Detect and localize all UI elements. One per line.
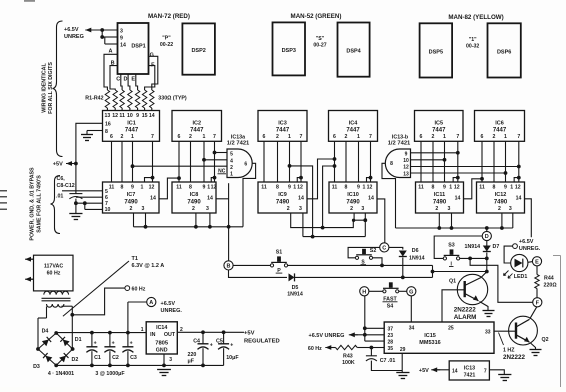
wire H riser to IC15 pins 37 23 28 [363, 296, 384, 341]
svg-text:11: 11 [332, 185, 338, 191]
capacitor C5 10uF [216, 332, 239, 365]
svg-text:3: 3 [509, 206, 512, 212]
svg-text:+6.5V UNREG: +6.5V UNREG [309, 333, 345, 339]
svg-text:IC14: IC14 [156, 325, 167, 331]
label "1" 00-32 [466, 37, 479, 50]
decoder IC4 7447 [329, 111, 378, 142]
transistor Q2 2N2222 1Hz [509, 316, 538, 345]
segment labels G F on DSP1 right [150, 53, 155, 69]
svg-text:5: 5 [230, 151, 233, 157]
capacitor C4 220uF [188, 332, 213, 365]
svg-text:3: 3 [206, 206, 209, 212]
op-amp style AND gate IC13a 1/2 7421 [227, 135, 252, 178]
svg-text:117VAC: 117VAC [44, 263, 64, 269]
svg-text:9: 9 [288, 185, 291, 191]
node D [482, 231, 491, 240]
svg-text:7: 7 [369, 134, 372, 140]
counter IC11 7490 [416, 182, 464, 213]
node H [360, 287, 369, 296]
display DSP5 [420, 23, 453, 77]
labels Q1 2N2222 ALARM [449, 278, 476, 321]
switch S1 [270, 256, 287, 267]
svg-text:14: 14 [368, 196, 374, 202]
svg-text:14: 14 [298, 196, 304, 202]
svg-text:16: 16 [105, 121, 111, 127]
wire bus A riser to IC4 pin6 line [321, 164, 337, 229]
label +6.5V UNREG (pin23) with arrow [309, 332, 365, 339]
svg-text:G: G [150, 53, 154, 59]
IC1 top pin labels 13 12 11 10 9 15 14 [105, 113, 155, 119]
svg-text:6: 6 [481, 134, 484, 140]
svg-text:11: 11 [119, 113, 125, 119]
svg-text:S2: S2 [370, 248, 377, 254]
svg-text:+6.5V: +6.5V [64, 27, 79, 33]
wire IC11 pin1-pin12 strap [453, 178, 458, 182]
svg-text:D5: D5 [292, 285, 299, 291]
svg-text:14: 14 [207, 196, 213, 202]
wire segment C to R3 [121, 74, 122, 90]
svg-text:7: 7 [151, 134, 154, 140]
wire IC6 pin1 to gate pin13 [411, 171, 508, 175]
svg-text:C6,: C6, [57, 176, 66, 182]
svg-text:9: 9 [131, 185, 134, 191]
svg-text:14: 14 [150, 196, 156, 202]
svg-text:C7 .01: C7 .01 [380, 358, 396, 364]
svg-text:1: 1 [510, 185, 513, 191]
wire bus A (IC9 pin2 to IC10 resets) [291, 213, 356, 237]
svg-text:12: 12 [112, 113, 118, 119]
label +5V with arrow (IC13) [419, 367, 449, 373]
svg-text:9: 9 [120, 35, 123, 41]
svg-text:8: 8 [276, 185, 279, 191]
wire LED1 to node E [528, 261, 533, 264]
wire segment D to R4 [128, 74, 130, 90]
label NC [218, 169, 227, 175]
svg-text:8: 8 [493, 185, 496, 191]
wire B down to D5 line [229, 270, 288, 278]
wire IC10 pin1-pin12 strap [367, 178, 371, 182]
svg-text:12: 12 [367, 185, 373, 191]
wire IC7 pin1-pin12 strap [145, 178, 153, 182]
svg-text:GND: GND [156, 347, 168, 353]
svg-text:1: 1 [504, 134, 507, 140]
svg-text:220: 220 [188, 352, 197, 358]
ground at IC1 pin 8 [81, 135, 93, 141]
wire segment G to R7 [149, 56, 158, 90]
svg-text:4 · 1N4001: 4 · 1N4001 [48, 371, 74, 377]
svg-text:14: 14 [149, 113, 155, 119]
svg-text:IC12: IC12 [495, 192, 507, 198]
wire BCD bus IC1 to IC7 [112, 141, 153, 182]
wire C to S2 [348, 247, 380, 257]
svg-text:12: 12 [515, 185, 521, 191]
svg-text:UNREG: UNREG [64, 34, 84, 40]
svg-text:IC3: IC3 [278, 121, 287, 127]
node C [380, 243, 389, 252]
svg-text:13: 13 [403, 171, 409, 177]
svg-text:7490: 7490 [124, 200, 138, 206]
pointer line 1 HZ label [499, 333, 504, 346]
wire Q1 base to IC15 pin 25 [442, 290, 465, 322]
svg-text:IC10: IC10 [347, 192, 359, 198]
svg-text:7: 7 [456, 134, 459, 140]
wire IC9 pin14 cascade to IC4 pin6 line [307, 157, 336, 199]
resistor network R1-R42 (7 shown) [105, 90, 154, 111]
wire BCD bus IC4 to IC10 [335, 141, 371, 182]
labels D1 D2 D3 D4 [33, 328, 82, 370]
wire S1 to set line [287, 264, 487, 278]
svg-text:B: B [227, 263, 231, 269]
svg-text:D3: D3 [33, 364, 40, 370]
junction dots bypass [74, 201, 87, 205]
label 60 Hz with arrow [308, 345, 336, 352]
svg-text:29: 29 [400, 347, 406, 353]
wire IC2 pin7 to gate pin5 [213, 151, 227, 155]
wire +6.5V unreg to DSP1 pins 3 9 14 [85, 28, 117, 44]
svg-text:+5V: +5V [53, 162, 63, 168]
svg-text:1N914: 1N914 [287, 292, 303, 298]
svg-text:8: 8 [121, 185, 124, 191]
wire BCD bus IC6 to IC12 [482, 141, 519, 182]
svg-text:LED1: LED1 [514, 274, 528, 280]
counter IC10 7490 [329, 182, 377, 213]
svg-text:DSP4: DSP4 [346, 49, 361, 55]
svg-text:7447: 7447 [276, 128, 290, 134]
display DSP1 [118, 23, 149, 74]
svg-text:+: + [94, 340, 97, 346]
transformer T1 primary box 117VAC 60Hz [34, 255, 74, 291]
svg-text:6: 6 [263, 134, 266, 140]
wire IC7 pin14 cascade to IC8 pin11 line [159, 176, 181, 199]
page edge artifact top-left [24, 0, 35, 2]
svg-text:+6.5V: +6.5V [161, 301, 176, 307]
svg-text:28: 28 [388, 339, 394, 345]
wire H to S4 [369, 290, 385, 292]
label S [361, 260, 367, 266]
svg-text:9: 9 [405, 151, 408, 157]
svg-text:1/2 7421: 1/2 7421 [227, 141, 250, 147]
svg-text:ALARM: ALARM [454, 314, 477, 321]
gate package IC13 7421 [449, 361, 489, 380]
svg-text:S1: S1 [276, 249, 283, 255]
svg-text:7: 7 [484, 368, 487, 374]
svg-text:10μF: 10μF [226, 355, 239, 361]
wire IC5 pin7 to gate pin9 [411, 151, 460, 155]
svg-text:1: 1 [443, 134, 446, 140]
svg-text:3 @ 1000μF: 3 @ 1000μF [95, 371, 125, 377]
label P [276, 268, 283, 274]
wire +5V regulated output [177, 330, 244, 334]
svg-text:3: 3 [448, 206, 451, 212]
svg-text:330Ω (TYP): 330Ω (TYP) [158, 96, 187, 102]
svg-text:11: 11 [176, 185, 182, 191]
decoder IC6 7447 [475, 111, 525, 142]
counter IC8 7490 [172, 182, 216, 213]
wire gate IC13b output 8 [382, 163, 396, 228]
transistor Q1 2N2222 [457, 274, 487, 304]
decoder IC1 7447 [103, 111, 160, 142]
labels R44 220ohm [544, 276, 558, 289]
svg-text:2N2222: 2N2222 [454, 307, 477, 314]
svg-text:IC6: IC6 [495, 121, 504, 127]
svg-text:D2: D2 [72, 357, 79, 363]
note WIRING IDENTICAL FOR ALL SIX DIGITS with brace [42, 21, 63, 157]
svg-text:9: 9 [203, 185, 206, 191]
svg-text:12: 12 [149, 185, 155, 191]
svg-text:7447: 7447 [125, 128, 139, 134]
svg-text:+5V: +5V [244, 330, 255, 336]
svg-text:11: 11 [261, 185, 267, 191]
wire BCD bus IC3 to IC9 [264, 141, 301, 182]
DSP1 pin labels 3 9 14 [120, 28, 126, 48]
switch S2 [355, 249, 372, 260]
capacitors C1 C2 C3 1000uF [86, 333, 137, 366]
svg-text:"P": "P" [162, 36, 171, 42]
svg-text:MM5316: MM5316 [419, 340, 440, 346]
svg-text:DSP1: DSP1 [131, 44, 145, 50]
transformer windings [42, 291, 71, 307]
svg-text:9: 9 [443, 185, 446, 191]
svg-text:C3: C3 [130, 355, 137, 361]
svg-text:T1: T1 [132, 256, 138, 262]
svg-text:C4: C4 [193, 338, 200, 344]
svg-text:MAN-52 (GREEN): MAN-52 (GREEN) [291, 13, 342, 20]
wire E to R44 [536, 266, 538, 275]
svg-text:1/2 7421: 1/2 7421 [388, 141, 411, 147]
wire IC2 pin1 to gate pin4 [202, 158, 227, 162]
svg-text:C8-C12: C8-C12 [57, 183, 75, 189]
ground below C6 [69, 214, 82, 220]
label "S" 00-27 [313, 36, 326, 49]
svg-text:12: 12 [297, 185, 303, 191]
svg-text:D4: D4 [42, 328, 49, 334]
terminal 60 Hz [125, 286, 130, 291]
wire IC12 pin14 to +6.5V unreg [525, 199, 532, 237]
bridge rectifier D1-D4 [36, 331, 74, 367]
wire D to S3 [434, 236, 482, 258]
wire IC1 pin1 to gate pin2 bus [131, 164, 227, 168]
svg-text:1: 1 [203, 134, 206, 140]
svg-text:DSP3: DSP3 [282, 48, 296, 54]
label +6.5V UNREG (right) [519, 239, 541, 252]
svg-text:D7: D7 [493, 244, 500, 250]
svg-text:C1: C1 [94, 355, 101, 361]
svg-text:Q1: Q1 [449, 278, 456, 284]
svg-text:MAN-72 (RED): MAN-72 (RED) [148, 13, 190, 20]
svg-text:7490: 7490 [494, 200, 508, 206]
svg-text:IC7: IC7 [127, 192, 136, 198]
svg-text:2: 2 [345, 134, 348, 140]
counter IC12 7490 [477, 182, 525, 213]
svg-text:7421: 7421 [464, 372, 476, 378]
wire IC6 pin7 to gate pin12 [411, 165, 521, 169]
svg-text:3: 3 [299, 206, 302, 212]
svg-text:+: + [230, 343, 233, 349]
svg-text:3: 3 [142, 206, 145, 212]
labels D5 1N914 [287, 285, 303, 298]
svg-text:13: 13 [105, 113, 111, 119]
decoder IC3 7447 [258, 111, 307, 142]
wire IC9 pin9 branch down to bus B [288, 164, 315, 239]
svg-text:R1-R42: R1-R42 [85, 96, 103, 102]
node G [407, 287, 416, 296]
svg-text:IC15: IC15 [424, 333, 436, 339]
display DSP3 [273, 22, 306, 75]
svg-text:+5V: +5V [419, 368, 429, 374]
display DSP6 [488, 23, 521, 77]
svg-text:1 HZ: 1 HZ [503, 348, 515, 354]
svg-text:7: 7 [105, 201, 108, 207]
switch S3 [443, 249, 459, 260]
wire segment E to R5 [136, 74, 138, 90]
wire IC8 pin1-pin12 strap [211, 178, 214, 182]
svg-text:12: 12 [454, 185, 460, 191]
wire reset bus right (IC11 IC12 pins 2 3) [396, 213, 513, 230]
decoder IC2 7447 [172, 111, 222, 142]
svg-text:60 Hz: 60 Hz [47, 270, 61, 276]
label "P" 00-22 [160, 36, 173, 49]
svg-text:2: 2 [432, 134, 435, 140]
svg-text:OUT: OUT [164, 332, 176, 338]
wire bus B (IC10 pins 2 3) [303, 213, 367, 237]
svg-text:6: 6 [110, 134, 113, 140]
wire gate IC13a output 6 [243, 163, 256, 227]
svg-text:E: E [535, 259, 539, 265]
svg-text:IC2: IC2 [192, 121, 201, 127]
labels Q2 1 HZ 2N2222 [503, 337, 549, 361]
label +6.5V UNREG (top left) [64, 27, 84, 40]
svg-text:D: D [485, 234, 489, 240]
svg-text:7447: 7447 [493, 128, 507, 134]
svg-text:00-22: 00-22 [160, 42, 173, 48]
wire IC5 pin1 to gate pin10 [411, 158, 447, 162]
wire BCD bus IC2 to IC8 [179, 141, 215, 182]
svg-text:1N914: 1N914 [465, 244, 481, 250]
svg-text:8: 8 [432, 185, 435, 191]
svg-text:1: 1 [230, 172, 233, 178]
node B [224, 261, 233, 270]
label I (S3) [449, 261, 454, 267]
svg-text:6: 6 [333, 134, 336, 140]
svg-text:6: 6 [244, 161, 247, 167]
svg-text:FOR ALL SIX DIGITS: FOR ALL SIX DIGITS [48, 62, 54, 114]
svg-text:C5: C5 [216, 338, 223, 344]
svg-text:60 Hz: 60 Hz [132, 286, 146, 292]
svg-text:2: 2 [435, 206, 438, 212]
svg-text:2: 2 [192, 206, 195, 212]
svg-text:8: 8 [345, 185, 348, 191]
svg-text:9: 9 [504, 185, 507, 191]
svg-text:1: 1 [141, 185, 144, 191]
svg-text:7: 7 [213, 134, 216, 140]
wire R44 to node F [536, 289, 538, 298]
svg-text:7490: 7490 [276, 200, 290, 206]
note POWER GND BYPASS SAME FOR ALL 7490'S with brace [30, 167, 61, 241]
svg-text:+: + [130, 340, 133, 346]
wire IC14 GND to ground [163, 354, 165, 365]
svg-text:6.3V @ 1.2 A: 6.3V @ 1.2 A [132, 263, 165, 269]
svg-text:"1": "1" [469, 37, 477, 43]
wire IC9 pin1-pin12 strap [297, 178, 301, 182]
regulator IC14 7805 [146, 322, 177, 354]
labels FAST S4 [383, 297, 398, 310]
svg-text:3: 3 [169, 357, 172, 363]
svg-text:1: 1 [288, 134, 291, 140]
svg-text:2: 2 [121, 134, 124, 140]
wire Q2 emitter to ground [531, 343, 536, 350]
wire IC13 pin 7 to ground [489, 370, 504, 375]
wire S3 to alarm line [458, 257, 487, 261]
IC1 left pin labels 16 8 [105, 121, 111, 135]
page edge line right [553, 256, 561, 388]
wire IC8 pin14 to node B riser [216, 198, 229, 200]
wire transformer secondary to bridge [38, 306, 74, 349]
wire node B riser [228, 183, 230, 261]
svg-text:1: 1 [141, 327, 144, 333]
svg-text:14: 14 [516, 196, 522, 202]
wire reset bus left (IC7 IC8 pins 2 3 to gate-a output) [134, 213, 244, 229]
wire C6 to IC7 pins 6 7 10 [62, 191, 103, 210]
svg-text:2N2222: 2N2222 [503, 354, 526, 361]
decoder IC5 7447 [415, 111, 464, 142]
svg-text:S4: S4 [387, 304, 394, 310]
svg-text:10: 10 [105, 207, 111, 213]
wire segment B to R2 [110, 66, 118, 90]
svg-text:A: A [149, 300, 153, 306]
wire G riser to IC15 pin 34 [410, 296, 412, 322]
svg-text:8: 8 [189, 185, 192, 191]
svg-text:MAN-82 (YELLOW): MAN-82 (YELLOW) [448, 14, 503, 21]
terminal +6.5V unreg [513, 244, 518, 249]
svg-text:IC11: IC11 [434, 192, 445, 198]
svg-text:10: 10 [403, 158, 409, 164]
junction dots DSP1 supply [100, 28, 104, 39]
svg-text:2: 2 [493, 134, 496, 140]
svg-text:8: 8 [105, 129, 108, 135]
svg-text:11: 11 [109, 185, 115, 191]
svg-text:IC4: IC4 [349, 121, 359, 127]
svg-text:14: 14 [452, 368, 458, 374]
wire alarm loop to node F [470, 258, 533, 302]
svg-text:IC1: IC1 [127, 121, 136, 127]
svg-text:60 Hz: 60 Hz [308, 346, 322, 352]
svg-text:2: 2 [130, 206, 133, 212]
svg-text:34: 34 [409, 326, 415, 332]
svg-text:11: 11 [479, 185, 485, 191]
svg-text:UNREG.: UNREG. [519, 246, 541, 252]
svg-text:μF: μF [188, 358, 195, 364]
wire segment F to R6 [145, 66, 155, 90]
ground below IC14 [157, 370, 171, 376]
svg-text:D: D [124, 76, 128, 82]
wire IC15 pin 29 to ground [401, 353, 403, 372]
display DSP2 [182, 23, 215, 74]
svg-text:9: 9 [136, 113, 139, 119]
svg-text:C: C [116, 76, 120, 82]
svg-text:3: 3 [120, 28, 123, 34]
wire F to Q2 collector [530, 307, 537, 319]
svg-text:6: 6 [420, 134, 423, 140]
svg-text:7447: 7447 [432, 128, 446, 134]
svg-text:D6: D6 [412, 248, 419, 254]
svg-text:2: 2 [230, 165, 233, 171]
svg-text:14: 14 [455, 196, 461, 202]
svg-text:220Ω: 220Ω [544, 283, 558, 289]
counter IC7 7490 [103, 182, 160, 213]
wire IC1 pin 8 to ground [87, 131, 103, 135]
svg-text:8: 8 [390, 161, 393, 167]
wire DC - rail [56, 364, 223, 368]
